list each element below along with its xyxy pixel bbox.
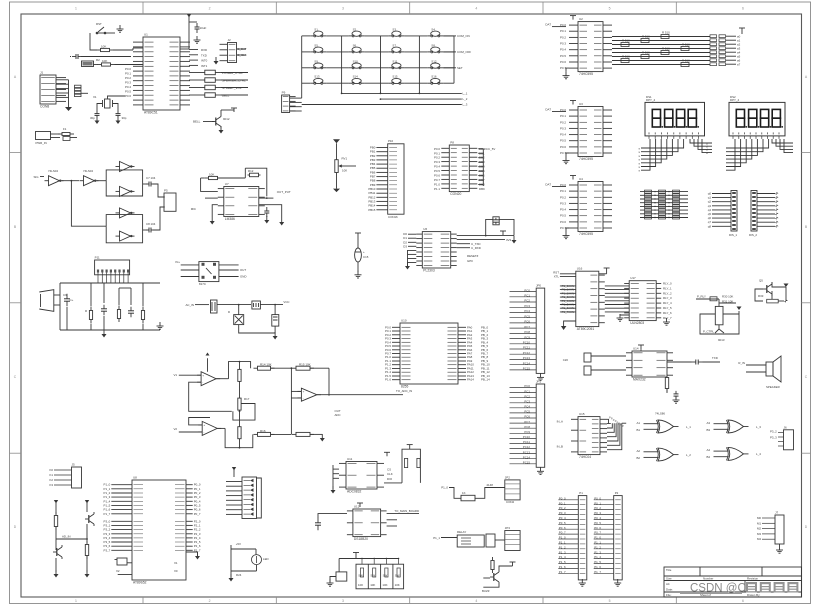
wire [757, 221, 775, 223]
IC audio amplifier U7 [224, 187, 259, 217]
wire [666, 389, 668, 394]
wire [218, 177, 246, 179]
svg-text:S16: S16 [431, 75, 437, 79]
svg-text:U2: U2 [579, 17, 583, 21]
wire [612, 40, 710, 42]
wire [776, 139, 793, 146]
wire [237, 54, 247, 56]
capacitor [266, 207, 268, 211]
svg-text:AT89C51: AT89C51 [144, 110, 158, 114]
svg-text:P0_7: P0_7 [594, 531, 601, 535]
svg-text:SW: SW [358, 574, 363, 578]
svg-text:RESET#: RESET# [467, 254, 479, 258]
resistor [204, 72, 206, 74]
svg-text:P0.6: P0.6 [125, 94, 131, 98]
inverter U5A [49, 176, 60, 186]
svg-text:P1_7: P1_7 [104, 512, 111, 516]
wire [605, 285, 629, 287]
wire [726, 139, 757, 155]
wire [189, 59, 198, 61]
wire [215, 79, 221, 81]
IC temperature sensor U12 [353, 509, 381, 537]
svg-text:PC12: PC12 [523, 351, 531, 355]
svg-text:PC1: PC1 [524, 389, 530, 393]
svg-text:L_1: L_1 [463, 92, 468, 96]
border zone divider [10, 452, 22, 454]
svg-text:DPY_4: DPY_4 [730, 98, 740, 102]
resistor R14 10K [254, 367, 258, 369]
wire [666, 376, 668, 379]
svg-text:D: D [228, 310, 230, 314]
transistor [766, 285, 768, 293]
svg-text:DIS_2: DIS_2 [749, 233, 757, 237]
inverter U5C [120, 162, 131, 172]
capacitor [103, 305, 105, 309]
capacitor [130, 307, 132, 311]
svg-text:PC6: PC6 [524, 415, 530, 419]
svg-text:L_3: L_3 [463, 103, 468, 107]
svg-text:DAT: DAT [545, 23, 551, 27]
svg-text:P0.5: P0.5 [560, 139, 566, 143]
svg-text:S6: S6 [353, 43, 357, 47]
svg-text:CON8: CON8 [40, 104, 49, 108]
svg-text:RLY_1: RLY_1 [663, 286, 672, 290]
ground [666, 318, 668, 322]
wire [221, 79, 248, 81]
wire [757, 197, 775, 199]
wire [290, 368, 292, 434]
wire [741, 32, 743, 34]
svg-text:B1: B1 [636, 428, 640, 432]
svg-text:SW: SW [370, 574, 375, 578]
ground [196, 36, 198, 40]
svg-text:C7 104: C7 104 [146, 176, 156, 180]
wire [130, 288, 132, 305]
feedback wire [189, 418, 210, 425]
svg-text:74HC04: 74HC04 [579, 455, 591, 459]
wire pin [111, 492, 132, 494]
wire pin [111, 513, 132, 515]
inverter U5F [120, 231, 131, 241]
svg-text:S10: S10 [353, 59, 359, 63]
svg-text:C8 104: C8 104 [146, 222, 156, 226]
wire [212, 205, 218, 217]
ground [357, 271, 359, 275]
svg-text:4: 4 [475, 7, 477, 11]
svg-text:P5: P5 [164, 189, 168, 193]
svg-text:R2: R2 [96, 58, 100, 62]
svg-text:TO_ADC_IN: TO_ADC_IN [396, 389, 412, 393]
svg-text:U_RXD: U_RXD [471, 246, 481, 250]
wire [560, 304, 576, 306]
wire [54, 294, 60, 296]
svg-text:J2: J2 [228, 38, 232, 42]
resistor network RP1 [710, 35, 717, 38]
svg-text:10K: 10K [358, 583, 363, 587]
wire [380, 36, 382, 94]
wire [90, 324, 92, 331]
wire [127, 562, 132, 564]
svg-text:U17: U17 [630, 276, 636, 280]
wire [365, 82, 389, 84]
wire bus [482, 149, 484, 186]
IC ADC0832 U11 [346, 462, 377, 490]
wire bus to gnd [408, 250, 417, 266]
speaker LS1 [766, 362, 773, 376]
svg-text:S8: S8 [431, 43, 435, 47]
wire [510, 407, 537, 409]
svg-text:P0_7: P0_7 [559, 531, 566, 535]
wire [510, 369, 537, 371]
svg-text:PC4: PC4 [524, 405, 530, 409]
wire [510, 327, 537, 329]
op-amp U13A [201, 372, 216, 386]
wire [365, 67, 389, 69]
wire [310, 433, 322, 435]
wire [86, 556, 88, 572]
svg-text:PC0: PC0 [524, 288, 530, 292]
svg-text:P0.2: P0.2 [560, 35, 566, 39]
wire [229, 362, 240, 379]
ground [266, 216, 268, 220]
capacitor [72, 56, 76, 58]
wire [240, 362, 251, 369]
svg-text:B2: B2 [636, 456, 640, 460]
svg-text:P_RLY: P_RLY [697, 295, 706, 299]
svg-text:S12: S12 [431, 59, 437, 63]
wire [785, 287, 787, 301]
wire [443, 67, 454, 69]
ground [513, 236, 515, 240]
ground [779, 546, 781, 550]
wire [290, 101, 302, 103]
wire [118, 288, 120, 306]
svg-text:R: R [85, 309, 87, 313]
svg-text:5: 5 [609, 599, 611, 603]
wire [510, 387, 537, 389]
wire [132, 48, 134, 50]
wire [641, 139, 661, 163]
svg-text:-: - [303, 396, 304, 400]
switch S9 [310, 67, 314, 69]
svg-text:IN+: IN+ [175, 260, 180, 264]
wire [340, 394, 403, 396]
wire [726, 59, 736, 61]
svg-text:SET: SET [457, 66, 463, 70]
VCC power [739, 27, 745, 29]
svg-text:PC15: PC15 [523, 461, 531, 465]
wire [133, 47, 143, 49]
svg-text:U6: U6 [423, 227, 427, 231]
switch S7 [388, 51, 392, 53]
svg-text:MAX232: MAX232 [633, 377, 646, 381]
wire [510, 422, 537, 424]
wire [291, 397, 301, 399]
resistor [204, 79, 206, 81]
svg-text:R30 10K: R30 10K [722, 295, 733, 299]
svg-text:P1_2: P1_2 [559, 545, 566, 549]
wire [510, 332, 537, 334]
ground [675, 396, 677, 400]
wire pin [111, 537, 132, 539]
wire [106, 32, 115, 34]
resistor [118, 306, 120, 310]
wire [443, 35, 456, 37]
resistor R02 [621, 43, 629, 47]
svg-text:V2: V2 [173, 427, 177, 431]
resistor R15 [641, 55, 649, 59]
wire [326, 51, 348, 53]
svg-text:1: 1 [75, 599, 77, 603]
svg-text:P0_6: P0_6 [594, 526, 601, 530]
svg-text:X2: X2 [116, 569, 120, 573]
svg-text:L_4: L_4 [756, 452, 761, 456]
ground [274, 332, 276, 336]
ground [329, 579, 331, 583]
IC MAX232 U14 [632, 351, 667, 377]
wire [510, 343, 537, 345]
svg-text:SW: SW [395, 574, 400, 578]
ground [220, 126, 222, 130]
wire [272, 197, 274, 199]
border zone divider [409, 2, 411, 14]
wire [552, 186, 566, 188]
svg-text:2: 2 [209, 599, 211, 603]
svg-text:R17: R17 [244, 397, 250, 401]
svg-text:R 510: R 510 [642, 35, 650, 39]
svg-text:PA14: PA14 [467, 378, 474, 382]
svg-text:S2: S2 [353, 27, 357, 31]
svg-text:P1_1: P1_1 [433, 536, 440, 540]
wire cross [56, 538, 87, 540]
wire pin [111, 545, 132, 547]
wire [560, 307, 576, 309]
wire pin [186, 524, 193, 526]
wire [118, 574, 132, 576]
wire [510, 322, 537, 324]
svg-text:Date:: Date: [666, 588, 673, 592]
svg-text:POWER_CTRL: POWER_CTRL [222, 71, 243, 75]
svg-text:C15: C15 [363, 255, 369, 259]
wire [387, 525, 397, 527]
wire [219, 264, 239, 266]
resistor [239, 368, 241, 370]
IC microcontroller 2 U8 [132, 480, 186, 580]
wire [60, 329, 160, 331]
wire [772, 282, 786, 287]
XOR gate U16C [728, 420, 744, 433]
wire [510, 392, 537, 394]
resistor R33 [681, 47, 689, 51]
wire [81, 92, 88, 94]
svg-text:P0.6: P0.6 [560, 60, 566, 64]
svg-text:P1_4: P1_4 [559, 555, 566, 559]
svg-text:P0.4: P0.4 [434, 165, 440, 169]
svg-text:P0_0: P0_0 [559, 496, 566, 500]
wire [302, 35, 311, 37]
svg-text:X1: X1 [174, 561, 178, 565]
svg-text:PC1: PC1 [524, 294, 530, 298]
ground [619, 314, 621, 318]
svg-text:S5: S5 [314, 43, 318, 47]
wire [449, 488, 461, 499]
svg-text:74HC595: 74HC595 [579, 72, 593, 76]
svg-text:P1_0: P1_0 [441, 486, 448, 490]
ground [211, 217, 213, 221]
wire [301, 36, 303, 98]
connector strip [751, 191, 757, 232]
border zone divider [10, 151, 22, 153]
wire [189, 94, 205, 96]
svg-text:U1: U1 [144, 33, 148, 37]
wire [612, 60, 710, 62]
wire [153, 184, 164, 197]
wire [667, 361, 692, 363]
svg-text:9013: 9013 [718, 338, 725, 342]
wire [475, 488, 505, 499]
wire [457, 239, 505, 241]
wire [181, 269, 199, 271]
wire [231, 570, 257, 572]
IC microcontroller U1 [143, 37, 180, 110]
svg-text:+5V: +5V [236, 542, 241, 546]
wire [560, 273, 576, 275]
wire pin [186, 488, 193, 490]
svg-text:SW: SW [383, 574, 388, 578]
svg-text:P0_2: P0_2 [594, 506, 601, 510]
resistor [204, 94, 206, 96]
svg-text:K3: K3 [49, 483, 53, 487]
feedback wire [189, 382, 232, 411]
wire [453, 36, 455, 83]
ground [119, 25, 121, 29]
svg-text:LED: LED [263, 557, 269, 561]
svg-text:P1_5: P1_5 [559, 560, 566, 564]
wire [113, 49, 133, 51]
wire [115, 559, 118, 561]
ground [55, 570, 57, 574]
wire [726, 51, 736, 53]
wire [341, 36, 343, 94]
svg-text:M1: M1 [757, 521, 761, 525]
wire [560, 285, 576, 287]
svg-text:COM_OFF: COM_OFF [457, 50, 471, 54]
svg-text:PC3: PC3 [524, 400, 530, 404]
wire pin [186, 537, 193, 539]
ground [96, 117, 98, 121]
svg-text:S13: S13 [314, 75, 320, 79]
svg-text:R 510: R 510 [642, 51, 650, 55]
svg-text:P0.7: P0.7 [560, 226, 566, 230]
svg-text:JP3: JP3 [505, 526, 511, 530]
relay block [457, 535, 484, 547]
wire pin [111, 520, 132, 522]
svg-text:P0_1: P0_1 [594, 501, 601, 505]
wire [443, 35, 454, 37]
wire [179, 374, 201, 376]
wire [203, 121, 214, 123]
wire [780, 139, 793, 149]
wire [189, 72, 205, 74]
svg-text:File:: File: [666, 593, 672, 597]
wire [226, 509, 242, 511]
resistor [239, 426, 241, 428]
svg-text:RLY_6: RLY_6 [663, 311, 672, 315]
wire [510, 427, 537, 429]
wire [143, 183, 148, 185]
svg-text:P0_4: P0_4 [559, 516, 566, 520]
wire center bus [239, 362, 241, 370]
svg-text:P1_2: P1_2 [594, 545, 601, 549]
wire [566, 153, 569, 157]
resistor [248, 174, 250, 176]
svg-text:PC4: PC4 [524, 309, 530, 313]
connector strip [731, 191, 737, 232]
svg-text:P1_7: P1_7 [559, 570, 566, 574]
7-segment display [729, 102, 785, 135]
svg-text:CS: CS [387, 468, 391, 472]
switch S2 [349, 35, 353, 37]
svg-text:AT89S52: AT89S52 [133, 580, 147, 584]
wire [483, 577, 490, 579]
wire [181, 264, 199, 266]
ground [159, 322, 161, 326]
ground [565, 232, 567, 236]
svg-text:P3_3: P3_3 [770, 436, 777, 440]
svg-text:P0.3: P0.3 [125, 81, 131, 85]
ground [215, 57, 217, 61]
wire [443, 82, 454, 84]
svg-text:6: 6 [742, 599, 744, 603]
wire pin [186, 545, 193, 547]
svg-text:P1.1: P1.1 [434, 187, 440, 191]
svg-text:SPEAKER_CTRL: SPEAKER_CTRL [222, 79, 246, 83]
svg-text:P0_6: P0_6 [559, 526, 566, 530]
ground [563, 324, 565, 326]
svg-text:P0.7: P0.7 [560, 151, 566, 155]
wire [404, 35, 427, 37]
wire [216, 378, 228, 380]
svg-text:L_3: L_3 [756, 425, 761, 429]
svg-text:2: 2 [209, 7, 211, 11]
wire pin [111, 500, 132, 502]
ground [784, 284, 789, 288]
wire [510, 432, 537, 434]
svg-text:PC10: PC10 [523, 435, 531, 439]
wire [499, 219, 514, 235]
wire [784, 139, 793, 153]
ground [281, 218, 283, 222]
resistor [204, 87, 206, 89]
crystal Y3 [117, 558, 127, 565]
svg-text:PC6: PC6 [524, 320, 530, 324]
wire loop [755, 289, 763, 301]
component X184 [82, 61, 94, 67]
wire [290, 97, 302, 99]
svg-text:P1.6: P1.6 [385, 378, 391, 382]
border zone divider [142, 2, 144, 14]
wire [757, 217, 775, 219]
svg-text:U4: U4 [579, 177, 583, 181]
VCC power [188, 14, 190, 49]
ground [117, 117, 119, 121]
transistor [88, 515, 90, 523]
svg-text:R16: R16 [260, 429, 266, 433]
svg-text:P1_0: P1_0 [594, 536, 601, 540]
wire [478, 148, 483, 150]
wire pin [111, 533, 132, 535]
inverter pair block [106, 170, 142, 191]
